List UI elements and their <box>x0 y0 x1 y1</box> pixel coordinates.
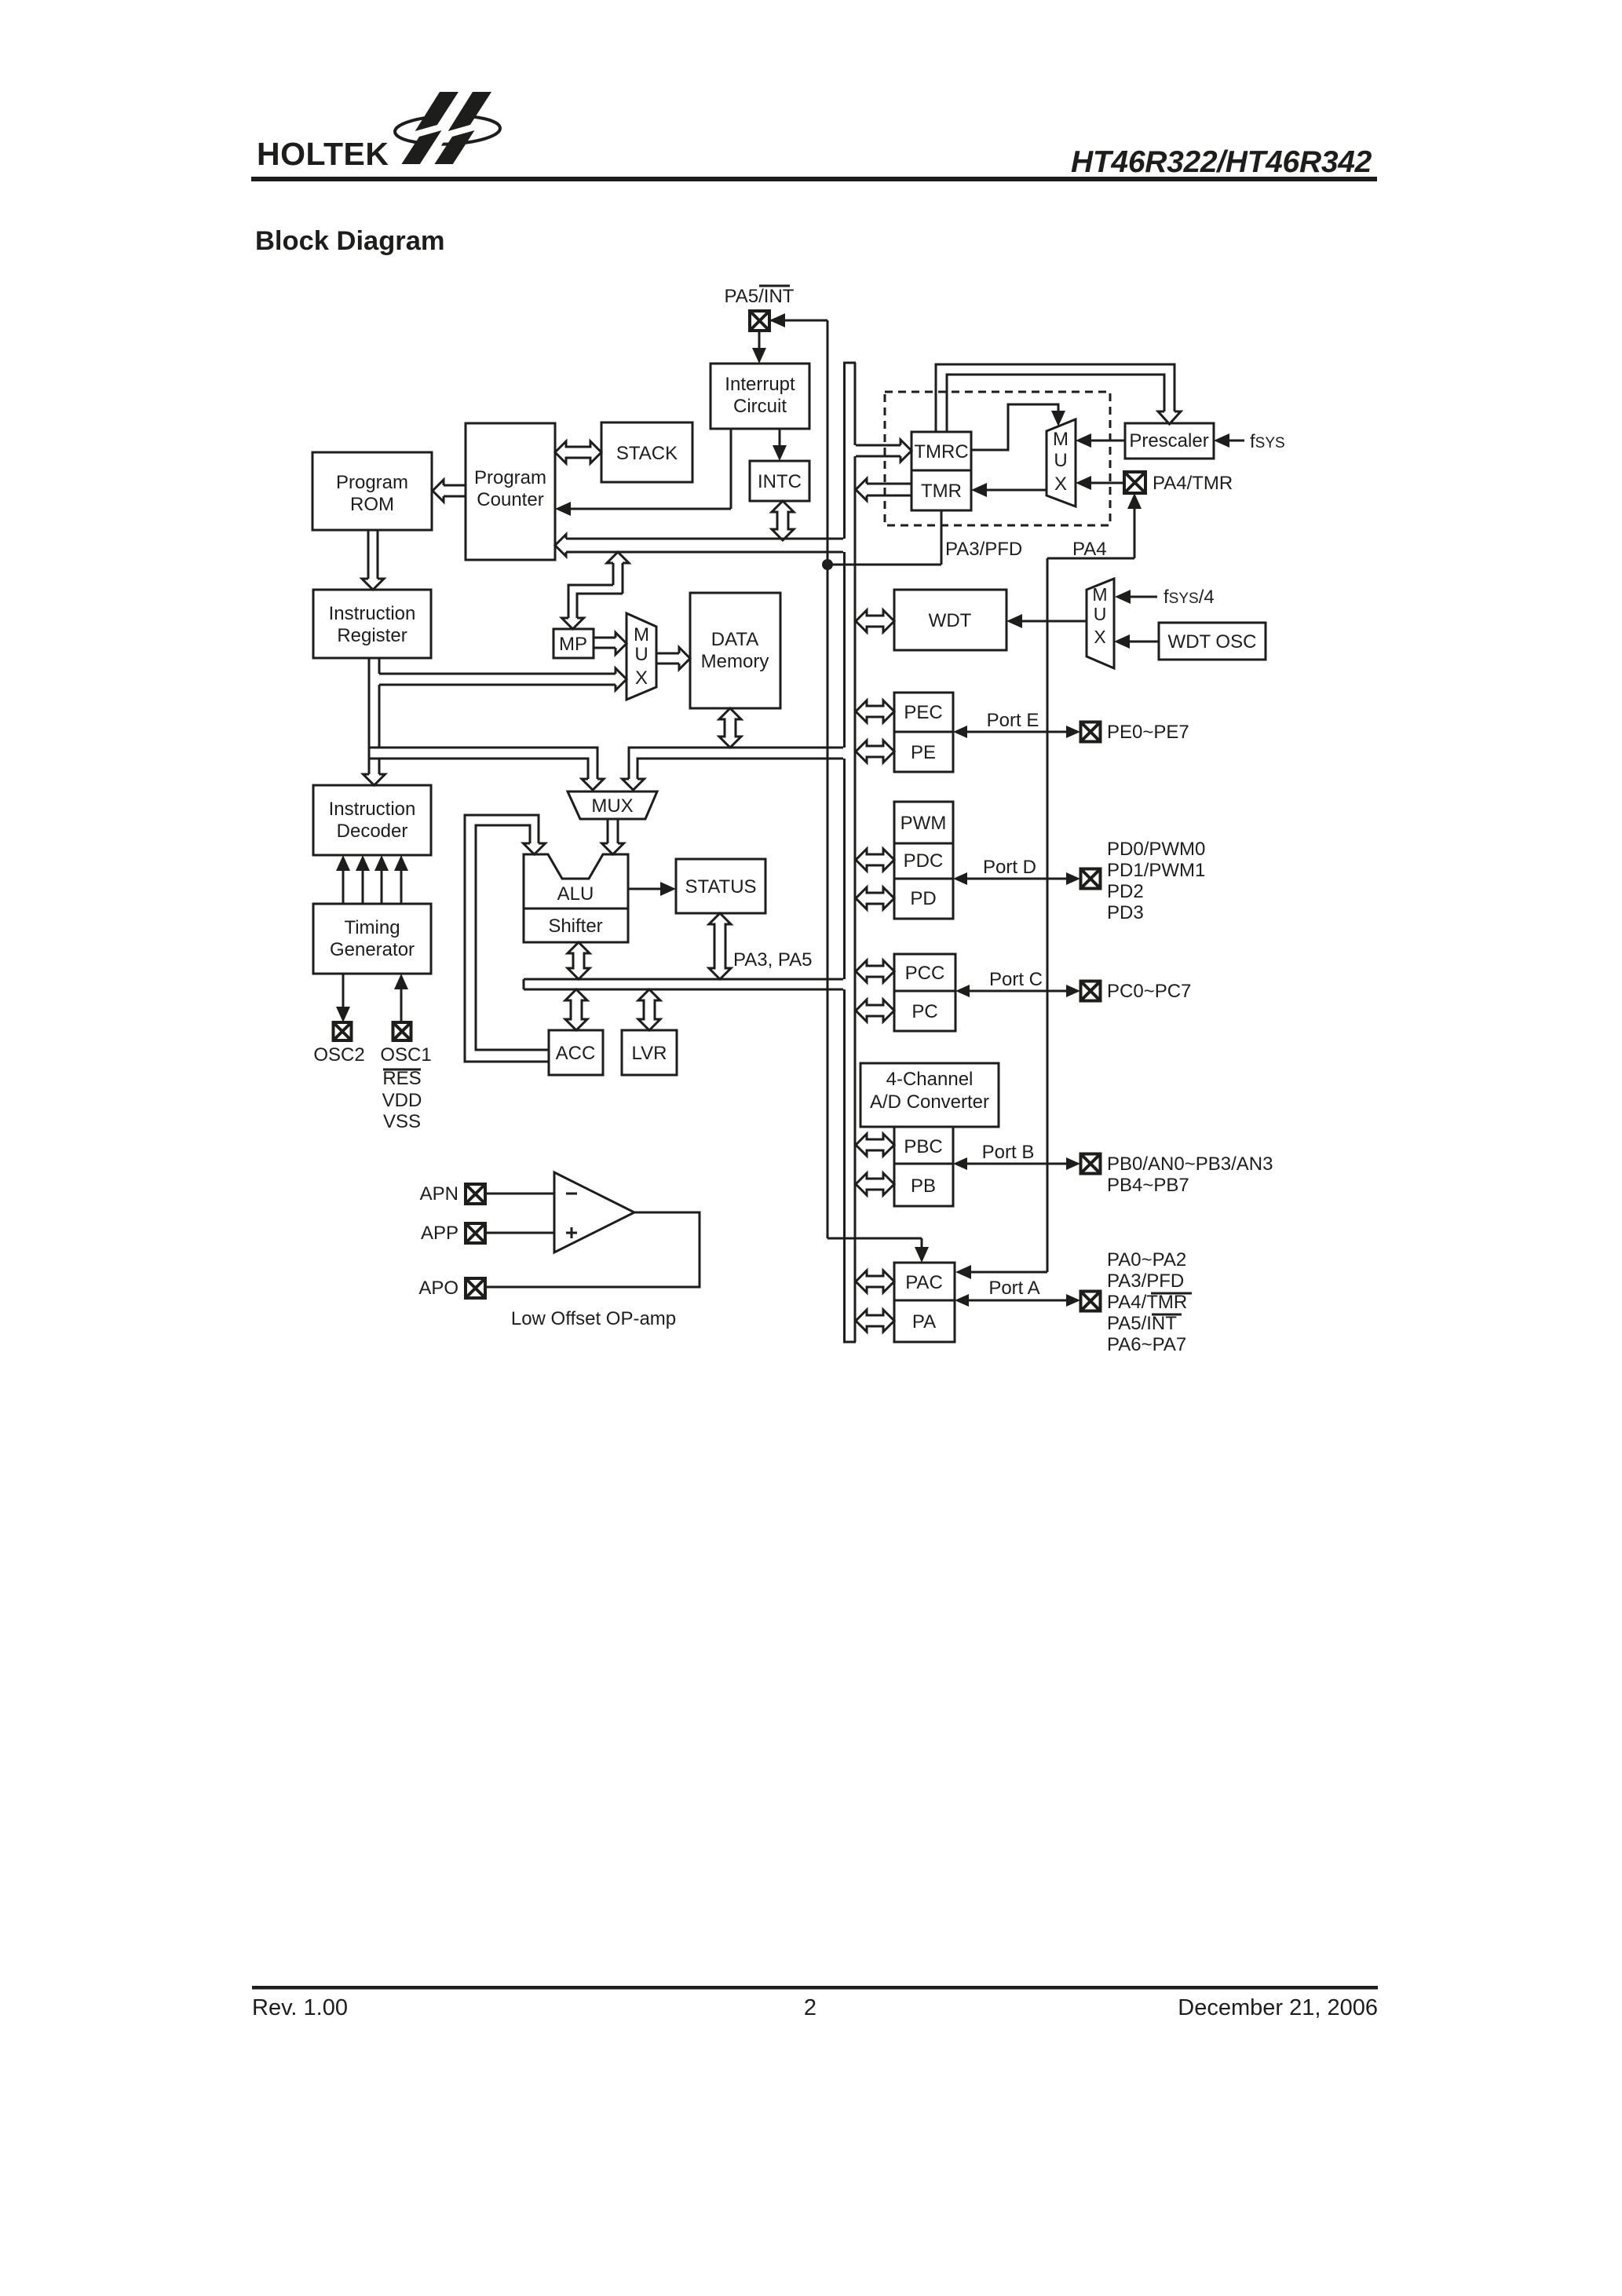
svg-text:fSYS: fSYS <box>1250 431 1285 452</box>
bus horizontal pair main bus to central MUX right leg <box>629 748 843 779</box>
svg-text:LVR: LVR <box>632 1043 667 1064</box>
bus Program Counter to Program ROM <box>444 484 466 487</box>
svg-text:Program: Program <box>474 467 546 488</box>
wire APP to op-amp noninverting input <box>485 1232 554 1234</box>
svg-text:PA: PA <box>912 1311 936 1333</box>
svg-text:PA3/PFD: PA3/PFD <box>1107 1270 1184 1292</box>
dashed timer enclosure <box>885 392 1110 525</box>
svg-text:Shifter: Shifter <box>548 916 602 937</box>
svg-text:Port A: Port A <box>988 1278 1039 1299</box>
block WDT <box>894 590 1006 650</box>
svg-text:A/D Converter: A/D Converter <box>870 1091 989 1113</box>
pin Port C pad <box>1081 982 1101 1001</box>
bus Port E data double arrow <box>856 740 894 762</box>
bus Port A data double arrow <box>856 1310 894 1332</box>
svg-text:VDD: VDD <box>382 1090 422 1111</box>
block PCC/PC <box>894 954 955 1031</box>
bus main bus to TMRC input <box>856 444 901 447</box>
svg-text:PCC: PCC <box>905 963 945 984</box>
header rule <box>251 177 1377 181</box>
svg-text:Decoder: Decoder <box>337 821 408 842</box>
pin APP <box>466 1223 485 1243</box>
pin APO <box>466 1278 485 1298</box>
wire PA4/TMR pin to timer MUX <box>1087 482 1124 484</box>
Holtek logo white gap band <box>410 89 475 167</box>
svg-text:WDT OSC: WDT OSC <box>1168 631 1257 653</box>
wire Timing Generator to OSC2 <box>342 974 345 1011</box>
svg-text:PA3/PFD: PA3/PFD <box>945 539 1022 560</box>
pin OSC2 <box>334 1022 352 1040</box>
wire TMR bottom PA3/PFD line to junction <box>941 510 943 565</box>
bus Program ROM to Instruction Register <box>367 530 370 579</box>
pin Port E pad <box>1081 722 1101 742</box>
bus horizontal pair IR-branch to central MUX left leg <box>369 748 597 779</box>
svg-text:4-Channel: 4-Channel <box>886 1069 974 1090</box>
block Interrupt Circuit <box>711 364 809 429</box>
svg-text:X: X <box>1054 473 1067 495</box>
block PBC/PB <box>894 1127 953 1206</box>
wire WDT OSC to WDT MUX <box>1125 641 1159 643</box>
junction dot <box>822 559 833 570</box>
svg-text:M: M <box>1053 429 1069 450</box>
svg-text:PD: PD <box>910 888 936 909</box>
svg-text:Counter: Counter <box>477 489 543 510</box>
wire WDT MUX to WDT <box>1017 620 1087 623</box>
bus PC to STACK double arrow <box>555 441 601 463</box>
svg-text:Port E: Port E <box>987 710 1039 731</box>
block MP <box>553 629 594 658</box>
block Prescaler <box>1125 423 1214 459</box>
svg-text:PE: PE <box>911 742 936 763</box>
svg-text:PA4/TMR: PA4/TMR <box>1153 473 1233 494</box>
pin PA4/TMR <box>1124 472 1145 493</box>
svg-text:Port D: Port D <box>983 857 1036 878</box>
bus IR branch to MP MUX lower input <box>379 673 616 675</box>
bus WDT to main bus double arrow <box>856 610 894 632</box>
block PEC/PE <box>894 693 953 772</box>
block WDT OSC <box>1159 623 1266 660</box>
block 4-Channel A/D Converter <box>860 1063 999 1127</box>
svg-text:Prescaler: Prescaler <box>1129 430 1208 452</box>
pin APN <box>466 1184 485 1204</box>
svg-text:PEC: PEC <box>904 702 942 723</box>
svg-text:PDC: PDC <box>904 850 944 872</box>
svg-text:APO: APO <box>418 1278 458 1299</box>
block PAC/PA <box>894 1263 955 1342</box>
bus Port D control double arrow <box>856 849 894 871</box>
Holtek logo ellipse ring <box>394 114 500 146</box>
block LVR <box>622 1030 677 1075</box>
svg-text:APN: APN <box>420 1183 458 1205</box>
svg-text:MP: MP <box>559 634 587 655</box>
svg-text:PC0~PC7: PC0~PC7 <box>1107 981 1191 1002</box>
svg-text:RES: RES <box>382 1068 421 1089</box>
block Program Counter <box>466 423 555 560</box>
svg-text:M: M <box>634 624 649 645</box>
svg-text:PC: PC <box>911 1001 937 1022</box>
svg-text:2: 2 <box>804 1995 816 2020</box>
svg-text:PD3: PD3 <box>1107 902 1144 923</box>
bus MP to MP MUX <box>594 637 616 639</box>
svg-text:OSC2: OSC2 <box>313 1044 364 1066</box>
svg-text:WDT: WDT <box>929 610 972 631</box>
svg-text:Circuit: Circuit <box>733 396 787 417</box>
svg-text:PA4/TMR: PA4/TMR <box>1107 1292 1187 1313</box>
block STATUS <box>676 859 765 913</box>
svg-text:Rev. 1.00: Rev. 1.00 <box>252 1995 348 2020</box>
wire fsys/4 to WDT MUX <box>1126 596 1157 598</box>
bus Port C control double arrow <box>856 960 894 982</box>
svg-text:PD2: PD2 <box>1107 881 1144 902</box>
svg-text:Register: Register <box>337 625 407 646</box>
svg-text:APP: APP <box>421 1223 458 1244</box>
wire OSC1 to Timing Generator <box>400 985 403 1022</box>
bus Port E control double arrow <box>856 700 894 722</box>
block Timing Generator <box>313 904 431 974</box>
svg-text:MUX: MUX <box>591 795 633 817</box>
svg-text:Port B: Port B <box>982 1142 1035 1163</box>
bus Port B data double arrow <box>856 1173 894 1195</box>
wire PA4 line from pin down to PAC <box>1127 493 1142 509</box>
mux WDT MUX trapezoid <box>1087 579 1114 668</box>
wire Port B line to pad <box>964 1163 1069 1165</box>
bus MP MUX to DATA Memory <box>656 653 679 655</box>
bus bar to ACC double arrow <box>565 989 587 1030</box>
svg-text:Generator: Generator <box>330 939 415 960</box>
svg-text:PBC: PBC <box>904 1136 942 1157</box>
svg-text:PA3, PA5: PA3, PA5 <box>733 949 813 971</box>
wire Port E line to pad <box>964 731 1069 733</box>
svg-text:Low Offset OP-amp: Low Offset OP-amp <box>511 1308 676 1329</box>
mux MP-MUX trapezoid <box>627 613 656 700</box>
svg-text:December 21, 2006: December 21, 2006 <box>1178 1995 1378 2020</box>
footer rule <box>252 1986 1378 1990</box>
svg-text:Port C: Port C <box>989 969 1043 990</box>
wire Port C line to pad <box>966 990 1069 993</box>
bus INTC to internal bus (double arrow) <box>772 501 794 540</box>
svg-text:Block Diagram: Block Diagram <box>255 226 445 256</box>
pin PA5/INT <box>750 311 769 331</box>
bus elbow from PC riser into MP <box>568 585 613 618</box>
svg-text:fSYS/4: fSYS/4 <box>1164 587 1215 608</box>
wire Interrupt Circuit to INTC <box>779 429 781 451</box>
svg-text:PA6~PA7: PA6~PA7 <box>1107 1334 1186 1355</box>
svg-text:PD1/PWM1: PD1/PWM1 <box>1107 860 1205 881</box>
Holtek logo left bolt <box>415 92 458 131</box>
svg-text:PA0~PA2: PA0~PA2 <box>1107 1249 1186 1270</box>
svg-text:PA4: PA4 <box>1072 539 1107 560</box>
wire Port A line to pad <box>966 1300 1069 1302</box>
svg-text:Interrupt: Interrupt <box>725 374 795 395</box>
svg-text:Timing: Timing <box>344 917 400 938</box>
bus TMR output to main bus <box>867 483 911 485</box>
block INTC <box>750 461 809 501</box>
block STACK <box>601 422 692 482</box>
bus Port B control double arrow <box>856 1134 894 1156</box>
block Program ROM <box>312 452 432 530</box>
svg-text:U: U <box>1054 450 1067 471</box>
bus TMRC top feedback to Prescaler <box>936 364 1174 432</box>
mux timer MUX trapezoid <box>1047 419 1076 506</box>
bus central MUX to ALU <box>607 819 609 843</box>
block DATA Memory <box>690 593 780 708</box>
wire Interrupt Circuit to Program Counter <box>730 429 732 509</box>
Holtek logo right bolt <box>448 92 491 131</box>
pin Port D pad <box>1081 869 1101 889</box>
svg-text:U: U <box>1094 604 1107 624</box>
block PWM/PDC/PD <box>894 802 953 919</box>
svg-text:STATUS: STATUS <box>685 876 756 898</box>
svg-text:M: M <box>1092 584 1107 605</box>
pin Port A pad <box>1081 1292 1101 1311</box>
svg-text:ALU: ALU <box>557 883 594 905</box>
bus ACC loop into ALU <box>465 815 549 1062</box>
svg-text:U: U <box>634 644 648 665</box>
bus Port D data double arrow <box>856 887 894 909</box>
svg-text:TMR: TMR <box>921 481 962 502</box>
svg-text:X: X <box>635 667 648 689</box>
svg-text:STACK: STACK <box>616 443 678 464</box>
block ACC <box>549 1030 603 1075</box>
svg-text:TMRC: TMRC <box>914 441 968 462</box>
svg-text:PD0/PWM0: PD0/PWM0 <box>1107 839 1205 860</box>
svg-text:PB4~PB7: PB4~PB7 <box>1107 1175 1189 1196</box>
svg-text:HT46R322/HT46R342: HT46R322/HT46R342 <box>1071 145 1372 179</box>
svg-text:PA5/INT: PA5/INT <box>725 286 795 307</box>
svg-text:INTC: INTC <box>758 471 802 492</box>
wire fsys to Prescaler <box>1225 440 1244 442</box>
wires Timing Generator to Instruction Decoder <box>342 866 345 904</box>
svg-text:HOLTEK: HOLTEK <box>257 136 389 172</box>
block Instruction Decoder <box>313 785 431 855</box>
svg-text:X: X <box>1094 627 1105 647</box>
svg-text:PWM: PWM <box>901 813 947 834</box>
bus Program Counter long hollow bus to main bus <box>566 538 843 540</box>
bus riser from data path up into PC bus <box>607 552 629 563</box>
svg-text:Instruction: Instruction <box>329 603 416 624</box>
wire timer MUX to TMR <box>982 489 1047 492</box>
pin Port B pad <box>1081 1154 1101 1174</box>
svg-text:Program: Program <box>336 472 408 493</box>
wire APN to op-amp inverting input <box>485 1193 554 1195</box>
svg-text:VSS: VSS <box>383 1111 421 1132</box>
svg-text:ACC: ACC <box>556 1043 596 1064</box>
svg-text:PAC: PAC <box>905 1272 943 1293</box>
bus Port A control double arrow <box>856 1270 894 1292</box>
bus STATUS to bar double arrow <box>709 913 731 979</box>
main vertical data bus <box>843 363 846 539</box>
bus Port C data double arrow <box>856 1000 894 1022</box>
svg-text:ROM: ROM <box>350 494 394 515</box>
wire pin to Interrupt Circuit <box>758 331 761 353</box>
svg-text:PB0/AN0~PB3/AN3: PB0/AN0~PB3/AN3 <box>1107 1153 1273 1175</box>
bus bar to LVR double arrow <box>638 989 660 1030</box>
wire TMRC to timer MUX top <box>971 404 1058 450</box>
block ALU with Shifter <box>524 854 628 942</box>
bus Shifter to bar double arrow <box>568 942 590 979</box>
block TMRC/TMR <box>911 432 971 510</box>
svg-text:PE0~PE7: PE0~PE7 <box>1107 722 1189 743</box>
bus PA3,PA5 horizontal bar <box>524 978 843 981</box>
svg-text:PA5/INT: PA5/INT <box>1107 1313 1177 1334</box>
bus DATA Memory to bus pair (double arrow) <box>719 708 741 748</box>
pin OSC1 <box>393 1022 411 1040</box>
bus Instruction Register vertical bus to Instruction Decoder <box>368 658 371 774</box>
block Instruction Register <box>313 590 431 658</box>
wire PA5/INT feedback line down to Port A <box>769 320 827 322</box>
svg-text:Instruction: Instruction <box>329 799 416 820</box>
svg-text:OSC1: OSC1 <box>380 1044 431 1066</box>
mux central MUX trapezoid <box>568 792 657 819</box>
svg-text:DATA: DATA <box>711 629 758 650</box>
op-amp U1 Low Offset OP-amp <box>554 1172 634 1252</box>
svg-text:Memory: Memory <box>701 651 769 672</box>
wire Port D line to pad <box>964 878 1069 880</box>
svg-text:PB: PB <box>911 1175 936 1197</box>
wire Prescaler to timer MUX <box>1087 440 1125 442</box>
wire op-amp output to APO <box>485 1212 700 1287</box>
wire ALU to STATUS <box>628 888 665 890</box>
